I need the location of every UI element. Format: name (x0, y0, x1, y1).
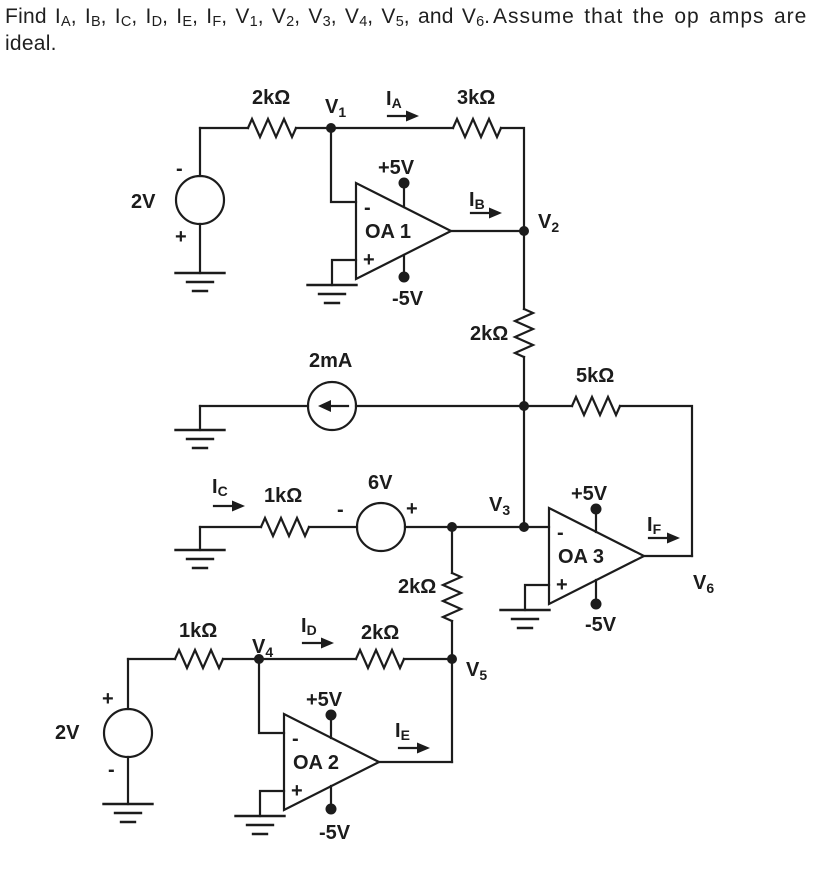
node mid junction (519, 401, 529, 411)
wire OA2 output up to V5 (451, 659, 453, 762)
node OA3 inverting junction (519, 522, 529, 532)
ground stub IC branch (199, 527, 201, 550)
OA3 +5V terminal dot (591, 504, 602, 515)
node V2 (519, 226, 529, 236)
current source I1 arrow (points left) (330, 405, 348, 407)
resistor 5k (572, 397, 620, 415)
svg-text:V5: V5 (466, 659, 487, 683)
ground of 2V bottom source (104, 804, 153, 822)
wire 3k to right corner, down to V2 (501, 128, 524, 231)
wire top-left horizontal (200, 127, 248, 129)
wire mid node down to V3 rail (523, 406, 525, 527)
OA1 -5V terminal dot (399, 272, 410, 283)
svg-text:-5V: -5V (319, 822, 351, 844)
svg-text:V4: V4 (252, 636, 273, 660)
svg-text:2V: 2V (131, 191, 156, 213)
svg-text:2kΩ: 2kΩ (470, 323, 508, 345)
svg-text:ID: ID (301, 615, 317, 638)
wire source to ground (127, 757, 129, 804)
svg-text:+: + (363, 249, 375, 271)
svg-text:IE: IE (395, 720, 410, 743)
ground IC branch (176, 550, 225, 568)
svg-text:1kΩ: 1kΩ (179, 620, 217, 642)
svg-text:+: + (175, 226, 187, 248)
wire mid node to 5k resistor (524, 405, 572, 407)
svg-text:-5V: -5V (392, 288, 424, 310)
OA2 +5V terminal dot (326, 710, 337, 721)
svg-text:2kΩ: 2kΩ (252, 87, 290, 109)
wire 6V to V3 node (405, 526, 452, 528)
wire OA2 +5V pin stub (330, 715, 332, 738)
svg-text:3kΩ: 3kΩ (457, 87, 495, 109)
svg-text:+: + (291, 780, 303, 802)
svg-text:V6: V6 (693, 572, 714, 596)
ground of OA3 + input (501, 610, 550, 628)
svg-text:OA 1: OA 1 (365, 221, 411, 243)
resistor R 2k top (248, 119, 296, 137)
resistor 2k vertical (V3-V5) (443, 573, 461, 621)
OA2 output wire (379, 761, 452, 763)
OA1 +5V terminal dot (399, 178, 410, 189)
current arrow IA (388, 111, 419, 122)
source circle 2V bottom (104, 709, 152, 757)
wire 1k to V4 (223, 658, 259, 660)
svg-text:6V: 6V (368, 472, 393, 494)
wire source bottom (199, 224, 201, 273)
problem statement text (5, 5, 813, 56)
wire ground to 1k (200, 526, 261, 528)
svg-text:-: - (364, 197, 371, 219)
OA1 output wire to V2 (451, 230, 524, 232)
svg-text:1kΩ: 1kΩ (264, 485, 302, 507)
wire V3 node to OA3 junction (452, 526, 524, 528)
wire source top (199, 128, 201, 176)
svg-text:V2: V2 (538, 211, 559, 235)
wire 5k right corner down to OA3 output (620, 406, 692, 556)
ground mid-left (176, 430, 225, 448)
wire OA3 -5V pin stub (595, 580, 597, 604)
svg-text:IA: IA (386, 88, 402, 111)
svg-text:IF: IF (647, 514, 662, 537)
current arrow IF (649, 533, 680, 544)
OA3 + input stub to ground (525, 585, 549, 610)
ground of OA2 + input (236, 816, 285, 834)
current arrow IE (399, 743, 430, 754)
wire mid-left to 2mA source (200, 405, 308, 407)
wire V4 down to OA2 inverting input (259, 659, 284, 733)
svg-text:OA 3: OA 3 (558, 546, 604, 568)
svg-text:2mA: 2mA (309, 350, 352, 372)
node V5 (447, 654, 457, 664)
resistor 1k (IC branch) (261, 518, 309, 536)
current arrow IC (214, 501, 245, 512)
wire 1k to 6V source (309, 526, 357, 528)
wire OA2 -5V pin stub (330, 786, 332, 809)
current arrow IB (471, 208, 502, 219)
OA3 output wire (644, 555, 692, 557)
wire junction to OA3 inverting input (524, 526, 549, 528)
ground of OA1 + input (308, 285, 357, 303)
svg-text:-: - (176, 158, 183, 180)
svg-text:+: + (406, 498, 418, 520)
wire OA1 -5V pin stub (403, 255, 405, 277)
wire 2mA to mid node (356, 405, 524, 407)
wire V1 to OA1 inverting input (331, 128, 356, 202)
svg-text:+5V: +5V (571, 483, 608, 505)
wire V3 node down to 2k (451, 527, 453, 573)
current source I1 circle (2mA) (308, 382, 356, 430)
wire 2k resistor to V1 (296, 127, 453, 129)
svg-text:V3: V3 (489, 494, 510, 518)
svg-text:2kΩ: 2kΩ (398, 576, 436, 598)
op-amp U3 triangle (OA 3) (549, 508, 644, 604)
svg-text:IC: IC (212, 476, 228, 499)
OA2 -5V terminal dot (326, 804, 337, 815)
OA1 + input stub to ground (332, 260, 356, 285)
wire OA3 +5V pin stub (595, 509, 597, 532)
wire OA1 +5V pin stub (403, 183, 405, 207)
svg-text:-: - (337, 499, 344, 521)
wire down from corner (127, 659, 129, 709)
wire V4 to 2k (259, 658, 356, 660)
svg-text:+: + (556, 574, 568, 596)
op-amp U1 triangle (OA 1) (356, 183, 451, 279)
op-amp U2 triangle (OA 2) (284, 714, 379, 810)
resistor R 3k top (453, 119, 501, 137)
svg-text:OA 2: OA 2 (293, 752, 339, 774)
OA3 -5V terminal dot (591, 599, 602, 610)
ground stub mid-left (199, 406, 201, 430)
resistor 2k vertical (515, 309, 533, 357)
svg-text:2V: 2V (55, 722, 80, 744)
voltage source V-top circle (2V) (176, 176, 224, 224)
svg-text:-: - (557, 522, 564, 544)
svg-text:+5V: +5V (378, 157, 415, 179)
svg-text:2kΩ: 2kΩ (361, 622, 399, 644)
svg-text:5kΩ: 5kΩ (576, 365, 614, 387)
current arrow ID (303, 638, 334, 649)
wire 2k to V5 (404, 658, 452, 660)
node V4 (254, 654, 264, 664)
wire bottom-left corner to 1k (128, 658, 175, 660)
svg-text:V1: V1 (325, 96, 346, 120)
node V3-left junction (447, 522, 457, 532)
wire resistor to mid node (523, 357, 525, 406)
node V1 (326, 123, 336, 133)
svg-text:IB: IB (469, 189, 485, 212)
OA2 + input stub to ground (260, 791, 284, 816)
svg-text:-: - (292, 728, 299, 750)
wire 2k to V5 (451, 621, 453, 659)
resistor 2k bottom (356, 650, 404, 668)
svg-text:-5V: -5V (585, 614, 617, 636)
ground of 2V source (176, 273, 225, 291)
svg-text:+5V: +5V (306, 689, 343, 711)
svg-text:-: - (108, 759, 115, 781)
voltage source circle (6V) (357, 503, 405, 551)
wire V2 down to resistor (523, 231, 525, 309)
resistor 1k bottom (175, 650, 223, 668)
svg-text:+: + (102, 688, 114, 710)
